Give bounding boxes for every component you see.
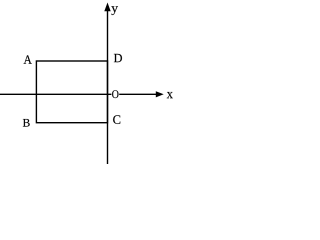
label A <box>24 55 32 63</box>
label D <box>114 54 122 62</box>
x-axis arrowhead <box>156 91 164 97</box>
label y <box>111 6 118 15</box>
label x <box>167 92 173 98</box>
x-axis <box>0 93 157 95</box>
label C <box>113 115 120 124</box>
y-axis arrowhead <box>104 3 110 12</box>
label B <box>23 119 30 127</box>
rectangle ABCD <box>36 61 107 123</box>
y-axis <box>107 8 109 164</box>
label O (origin) <box>111 90 119 99</box>
